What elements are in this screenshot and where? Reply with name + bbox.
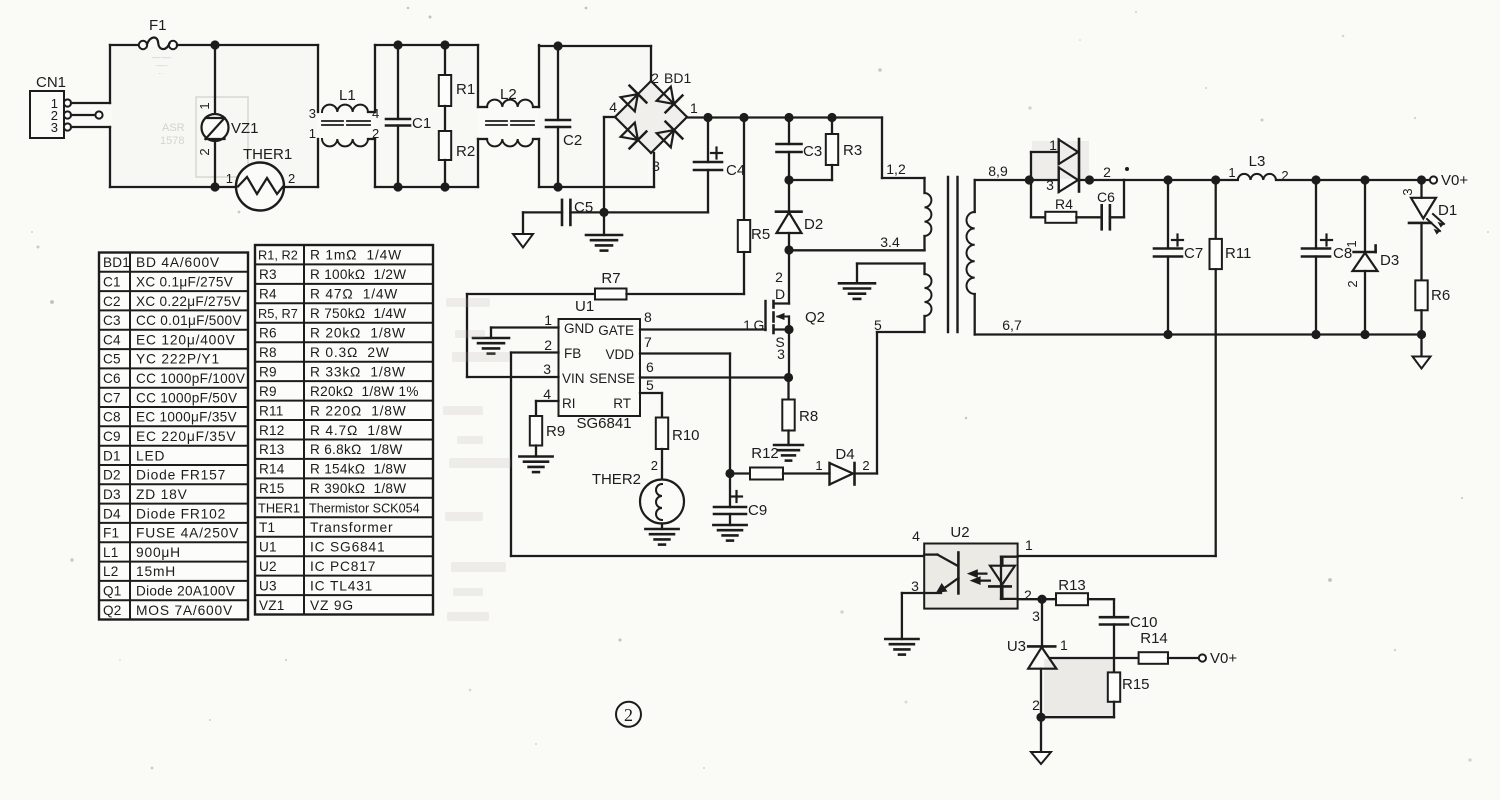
svg-text:R13: R13 xyxy=(1058,577,1086,594)
svg-text:THER1: THER1 xyxy=(258,501,300,516)
svg-text:2: 2 xyxy=(197,148,212,155)
svg-text:2: 2 xyxy=(544,337,552,353)
svg-text:BD 4A/600V: BD 4A/600V xyxy=(136,255,220,270)
svg-text:U1: U1 xyxy=(575,298,594,315)
svg-text:4: 4 xyxy=(543,386,551,402)
svg-text:R3: R3 xyxy=(259,267,277,282)
svg-text:C7: C7 xyxy=(1184,245,1203,262)
svg-text:EC 220μF/35V: EC 220μF/35V xyxy=(136,429,236,444)
svg-text:R6: R6 xyxy=(1431,287,1450,304)
svg-text:1: 1 xyxy=(544,312,552,328)
svg-text:D1: D1 xyxy=(1438,202,1457,219)
svg-text:C9: C9 xyxy=(748,502,767,519)
svg-text:2: 2 xyxy=(1281,168,1288,183)
svg-text:15mH: 15mH xyxy=(136,564,176,579)
svg-text:Diode 20A100V: Diode 20A100V xyxy=(136,584,235,599)
svg-text:R9: R9 xyxy=(259,384,277,399)
svg-text:C4: C4 xyxy=(103,332,121,347)
svg-text:R14: R14 xyxy=(1140,630,1168,647)
svg-text:IC PC817: IC PC817 xyxy=(310,559,376,574)
svg-text:V0+: V0+ xyxy=(1210,650,1237,667)
svg-text:SENSE: SENSE xyxy=(589,371,635,386)
svg-text:R 1mΩ 1/4W: R 1mΩ 1/4W xyxy=(310,248,402,263)
svg-text:3: 3 xyxy=(777,346,785,362)
svg-text:6: 6 xyxy=(646,359,654,375)
svg-text:C9: C9 xyxy=(103,429,121,444)
svg-text:R13: R13 xyxy=(259,442,285,457)
svg-text:C7: C7 xyxy=(103,390,121,405)
svg-text:Q2: Q2 xyxy=(103,603,122,618)
svg-text:R2: R2 xyxy=(456,143,475,160)
svg-text:2: 2 xyxy=(372,126,379,141)
svg-text:BD1: BD1 xyxy=(664,70,691,86)
svg-text:R6: R6 xyxy=(259,326,277,341)
svg-text:VZ1: VZ1 xyxy=(259,598,285,613)
svg-text:8: 8 xyxy=(644,309,652,325)
svg-text:R15: R15 xyxy=(1122,676,1150,693)
svg-text:R 0.3Ω 2W: R 0.3Ω 2W xyxy=(310,345,390,360)
svg-text:6,7: 6,7 xyxy=(1002,317,1022,333)
svg-text:R12: R12 xyxy=(259,423,285,438)
svg-text:Q2: Q2 xyxy=(805,309,825,326)
svg-text:R11: R11 xyxy=(1225,245,1251,262)
svg-text:D2: D2 xyxy=(103,468,121,483)
svg-text:L3: L3 xyxy=(1249,153,1266,170)
svg-text:Diode FR102: Diode FR102 xyxy=(136,506,226,521)
svg-text:THER2: THER2 xyxy=(592,471,641,488)
svg-text:R10: R10 xyxy=(672,427,700,444)
svg-text:R11: R11 xyxy=(259,403,284,418)
svg-text:3.4: 3.4 xyxy=(880,234,900,250)
svg-text:C6: C6 xyxy=(1097,189,1115,205)
svg-text:R9: R9 xyxy=(259,364,277,379)
svg-text:FB: FB xyxy=(564,346,581,361)
svg-text:SG6841: SG6841 xyxy=(576,415,631,432)
svg-text:D: D xyxy=(775,286,785,302)
svg-text:R 390kΩ 1/8W: R 390kΩ 1/8W xyxy=(310,481,406,496)
svg-text:R 6.8kΩ 1/8W: R 6.8kΩ 1/8W xyxy=(310,442,403,457)
svg-text:U2: U2 xyxy=(950,524,969,541)
svg-text:ASR: ASR xyxy=(162,122,185,134)
svg-text:IC SG6841: IC SG6841 xyxy=(310,539,385,554)
svg-text:RI: RI xyxy=(562,396,576,411)
svg-text:R9: R9 xyxy=(546,423,565,440)
svg-text:C2: C2 xyxy=(563,132,582,149)
svg-text:T1: T1 xyxy=(259,520,275,535)
svg-text:R1: R1 xyxy=(456,81,475,98)
svg-text:900μH: 900μH xyxy=(136,545,181,560)
svg-text:2: 2 xyxy=(624,705,633,725)
svg-text:4: 4 xyxy=(912,528,920,544)
svg-text:Transformer: Transformer xyxy=(310,520,393,535)
svg-text:··: ·· xyxy=(158,69,163,78)
svg-text:R4: R4 xyxy=(1055,196,1073,212)
svg-text:R 20kΩ 1/8W: R 20kΩ 1/8W xyxy=(310,326,406,341)
svg-text:GND: GND xyxy=(564,321,594,336)
svg-text:5: 5 xyxy=(646,377,654,393)
svg-text:2: 2 xyxy=(651,458,658,473)
svg-text:L2: L2 xyxy=(103,564,119,579)
svg-text:R 750kΩ 1/4W: R 750kΩ 1/4W xyxy=(310,306,406,321)
svg-text:1: 1 xyxy=(743,317,751,333)
svg-text:5: 5 xyxy=(874,317,882,333)
svg-text:VDD: VDD xyxy=(605,347,634,362)
svg-text:L1: L1 xyxy=(103,545,119,560)
svg-text:8,9: 8,9 xyxy=(988,163,1008,179)
svg-text:D3: D3 xyxy=(1380,252,1399,269)
svg-text:U3: U3 xyxy=(259,578,277,593)
svg-text:C4: C4 xyxy=(726,162,745,179)
svg-text:R 100kΩ 1/2W: R 100kΩ 1/2W xyxy=(310,267,406,282)
svg-text:2: 2 xyxy=(862,458,869,473)
svg-text:U1: U1 xyxy=(259,539,277,554)
svg-text:3: 3 xyxy=(543,361,551,377)
svg-text:Q1: Q1 xyxy=(103,584,122,599)
svg-text:FUSE 4A/250V: FUSE 4A/250V xyxy=(136,526,239,541)
svg-text:U2: U2 xyxy=(259,559,277,574)
svg-text:D2: D2 xyxy=(804,216,823,233)
svg-text:L2: L2 xyxy=(500,86,517,103)
svg-text:R 4.7Ω 1/8W: R 4.7Ω 1/8W xyxy=(310,423,403,438)
svg-text:CN1: CN1 xyxy=(36,74,66,91)
svg-text:4: 4 xyxy=(372,106,379,121)
svg-text:THER1: THER1 xyxy=(243,146,292,163)
svg-text:EC 1000μF/35V: EC 1000μF/35V xyxy=(136,410,237,425)
svg-text:R5, R7: R5, R7 xyxy=(258,306,298,321)
svg-text:C3: C3 xyxy=(103,313,121,328)
svg-text:EC 120μ/400V: EC 120μ/400V xyxy=(136,332,236,347)
svg-text:3: 3 xyxy=(652,158,660,174)
svg-text:1: 1 xyxy=(309,126,316,141)
svg-text:VZ1: VZ1 xyxy=(231,120,259,137)
svg-text:V0+: V0+ xyxy=(1441,172,1468,189)
svg-text:C5: C5 xyxy=(103,352,121,367)
svg-text:R8: R8 xyxy=(259,345,277,360)
svg-text:2: 2 xyxy=(1024,587,1032,603)
svg-text:R20kΩ 1/8W 1%: R20kΩ 1/8W 1% xyxy=(310,384,419,399)
svg-text:L1: L1 xyxy=(339,87,356,104)
svg-text:1: 1 xyxy=(197,102,212,109)
svg-text:R7: R7 xyxy=(601,270,620,287)
svg-text:3: 3 xyxy=(1032,608,1040,624)
svg-text:3: 3 xyxy=(1046,177,1054,193)
svg-text:BD1: BD1 xyxy=(103,255,130,270)
svg-text:U3: U3 xyxy=(1007,638,1026,655)
svg-text:VIN: VIN xyxy=(562,371,585,386)
svg-text:YC 222P/Y1: YC 222P/Y1 xyxy=(136,352,220,367)
svg-text:Thermistor SCK054: Thermistor SCK054 xyxy=(309,502,420,516)
svg-text:R5: R5 xyxy=(751,226,770,243)
svg-text:C6: C6 xyxy=(103,371,121,386)
svg-text:RT: RT xyxy=(613,396,631,411)
svg-text:CC 0.01μF/500V: CC 0.01μF/500V xyxy=(136,313,242,328)
svg-text:1: 1 xyxy=(1025,537,1033,553)
svg-text:2: 2 xyxy=(1032,697,1040,713)
svg-text:CC 1000pF/100V: CC 1000pF/100V xyxy=(136,371,245,386)
svg-text:R 33kΩ 1/8W: R 33kΩ 1/8W xyxy=(310,364,406,379)
svg-text:CC 1000pF/50V: CC 1000pF/50V xyxy=(136,390,237,405)
svg-text:2: 2 xyxy=(1103,164,1111,180)
svg-text:R12: R12 xyxy=(751,445,779,462)
svg-text:C5: C5 xyxy=(574,199,593,216)
svg-text:R 47Ω 1/4W: R 47Ω 1/4W xyxy=(310,287,398,302)
svg-text:2: 2 xyxy=(775,269,783,285)
svg-text:XC 0.1μF/275V: XC 0.1μF/275V xyxy=(136,274,233,289)
svg-text:C1: C1 xyxy=(103,274,121,289)
svg-text:2: 2 xyxy=(1345,280,1360,287)
svg-text:D4: D4 xyxy=(835,446,854,463)
svg-text:4: 4 xyxy=(609,99,617,115)
svg-text:R 220Ω 1/8W: R 220Ω 1/8W xyxy=(310,403,407,418)
svg-text:3: 3 xyxy=(1400,188,1415,195)
svg-text:1: 1 xyxy=(1228,165,1235,180)
svg-text:C2: C2 xyxy=(103,294,121,309)
svg-text:1: 1 xyxy=(1060,637,1068,653)
svg-text:1: 1 xyxy=(226,171,233,186)
svg-text:F1: F1 xyxy=(103,526,119,541)
svg-text:R8: R8 xyxy=(799,408,818,425)
svg-text:3: 3 xyxy=(911,578,919,594)
svg-text:G: G xyxy=(754,317,765,333)
svg-text:2: 2 xyxy=(288,171,295,186)
svg-text:1: 1 xyxy=(1344,240,1359,247)
svg-text:F1: F1 xyxy=(149,17,167,34)
svg-text:1,2: 1,2 xyxy=(886,161,906,177)
svg-text:MOS 7A/600V: MOS 7A/600V xyxy=(136,603,233,618)
svg-text:XC 0.22μF/275V: XC 0.22μF/275V xyxy=(136,294,241,309)
svg-text:R14: R14 xyxy=(259,462,285,477)
svg-text:C3: C3 xyxy=(803,143,822,160)
svg-text:R4: R4 xyxy=(259,287,277,302)
svg-text:VZ 9G: VZ 9G xyxy=(310,598,354,613)
svg-text:R3: R3 xyxy=(843,142,862,159)
svg-text:D1: D1 xyxy=(103,448,121,463)
svg-text:2: 2 xyxy=(651,70,659,86)
svg-text:1: 1 xyxy=(690,100,698,116)
svg-text:ZD 18V: ZD 18V xyxy=(136,487,188,502)
svg-text:D3: D3 xyxy=(103,487,121,502)
svg-text:1: 1 xyxy=(1049,137,1057,153)
svg-text:3: 3 xyxy=(309,106,316,121)
svg-text:R1, R2: R1, R2 xyxy=(258,248,298,263)
svg-text:IC TL431: IC TL431 xyxy=(310,578,373,593)
svg-text:D4: D4 xyxy=(103,506,121,521)
svg-text:R15: R15 xyxy=(259,481,285,496)
svg-text:1578: 1578 xyxy=(160,135,184,147)
svg-text:GATE: GATE xyxy=(598,323,634,338)
svg-text:Diode FR157: Diode FR157 xyxy=(136,468,226,483)
svg-text:R 154kΩ 1/8W: R 154kΩ 1/8W xyxy=(310,462,406,477)
svg-text:C8: C8 xyxy=(103,410,121,425)
svg-text:C10: C10 xyxy=(1130,614,1158,631)
svg-text:LED: LED xyxy=(136,448,165,463)
svg-text:1: 1 xyxy=(815,458,822,473)
svg-text:C1: C1 xyxy=(412,115,431,132)
svg-text:7: 7 xyxy=(644,334,652,350)
svg-text:3: 3 xyxy=(51,120,58,135)
